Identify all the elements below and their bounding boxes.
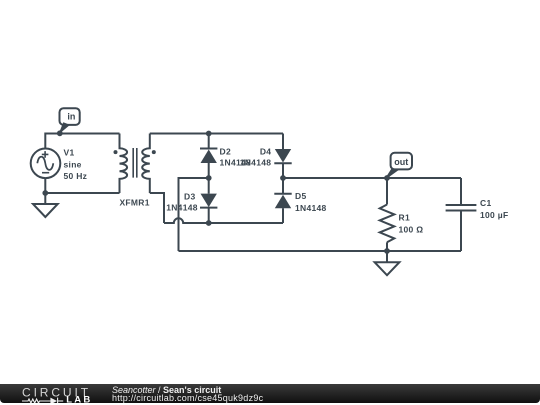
junction top of D2 <box>206 131 212 137</box>
svg-text:D2: D2 <box>220 146 231 156</box>
junction at V1 ground node <box>42 190 48 196</box>
svg-text:50 Hz: 50 Hz <box>64 171 88 181</box>
node flag out <box>386 153 412 178</box>
svg-text:C1: C1 <box>480 198 491 208</box>
ground G2 <box>375 251 400 275</box>
diode D3 <box>200 178 217 223</box>
svg-text:D3: D3 <box>184 191 195 201</box>
svg-text:V1: V1 <box>64 148 75 158</box>
junction at out / R1 top <box>384 175 390 181</box>
wire bottom rail with hop <box>164 218 283 223</box>
junction below D2 <box>206 175 212 181</box>
footer bar <box>0 384 540 403</box>
junction below D4 (out node) <box>280 175 286 181</box>
svg-text:1N4148: 1N4148 <box>166 202 198 212</box>
footer credit text <box>112 386 263 404</box>
ground G1 <box>33 193 58 217</box>
voltage source V1 <box>31 149 61 179</box>
wire secondary top rail to D4 <box>150 133 283 135</box>
wire V1 bottom to primary bottom <box>45 178 119 193</box>
label R1 100 ohm <box>399 212 424 234</box>
svg-text:R1: R1 <box>399 212 410 222</box>
svg-text:in: in <box>67 112 75 122</box>
svg-text:D5: D5 <box>295 191 306 201</box>
label D2 1N4148 <box>220 146 252 167</box>
node flag in <box>57 108 80 136</box>
svg-text:XFMR1: XFMR1 <box>119 197 149 207</box>
wire mid-left down <box>179 178 209 251</box>
label D5 1N4148 <box>295 191 327 213</box>
svg-text:100 Ω: 100 Ω <box>399 224 424 234</box>
label D3 1N4148 <box>166 191 198 212</box>
svg-text:sine: sine <box>64 159 82 169</box>
svg-text:LAB: LAB <box>66 395 92 403</box>
wire bottom return rail <box>179 250 462 252</box>
junction R1 bottom <box>384 248 390 254</box>
diode D2 <box>200 134 217 179</box>
diode D4 <box>274 134 291 179</box>
label C1 100 uF <box>480 198 508 220</box>
wire V1 top to transformer primary top <box>45 134 119 149</box>
CircuitLab logo <box>0 384 110 403</box>
svg-text:1N4148: 1N4148 <box>295 203 327 213</box>
resistor R1 <box>380 178 395 251</box>
transformer XFMR1 <box>114 134 156 194</box>
svg-text:D4: D4 <box>260 146 271 156</box>
label V1 sine 50 Hz <box>64 148 88 181</box>
svg-text:100 µF: 100 µF <box>480 210 508 220</box>
wire secondary bottom jog <box>150 193 164 223</box>
junction D3 bottom <box>206 220 212 226</box>
svg-text:1N4148: 1N4148 <box>240 158 272 168</box>
diode D5 <box>274 178 291 223</box>
svg-text:out: out <box>394 157 408 167</box>
label D4 1N4148 <box>240 146 272 167</box>
capacitor C1 <box>446 178 477 251</box>
wire out rail <box>283 177 461 179</box>
